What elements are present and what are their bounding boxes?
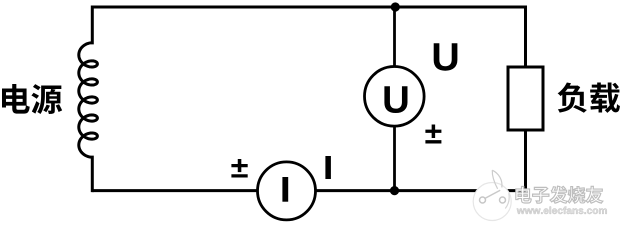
label fuzai (load)	[558, 83, 620, 113]
label plus-minus at ammeter	[231, 159, 247, 178]
wire right vertical (through load)	[524, 6, 527, 191]
wire voltmeter branch lower	[393, 126, 396, 191]
ammeter symbol letter I	[282, 177, 288, 202]
wire bottom horizontal	[92, 189, 525, 192]
label dianyuan (power source)	[2, 84, 62, 114]
label U (voltage)	[434, 43, 458, 70]
junction node top	[391, 2, 400, 11]
voltmeter symbol letter U	[384, 86, 407, 113]
resistor load (rectangle)	[508, 67, 543, 130]
junction node bottom	[390, 186, 399, 195]
wire top horizontal	[92, 6, 525, 9]
watermark text elecfans chinese	[516, 186, 603, 203]
voltmeter U1 circle	[365, 67, 425, 127]
label plus-minus at voltmeter	[425, 124, 441, 143]
label I (current)	[325, 156, 331, 179]
wire voltmeter branch upper	[393, 7, 396, 67]
watermark text www.elecfans.com	[517, 207, 607, 214]
watermark logo circle	[473, 170, 515, 220]
ammeter A1 circle	[258, 162, 316, 220]
inductor L1 (power source coil)	[79, 6, 98, 193]
